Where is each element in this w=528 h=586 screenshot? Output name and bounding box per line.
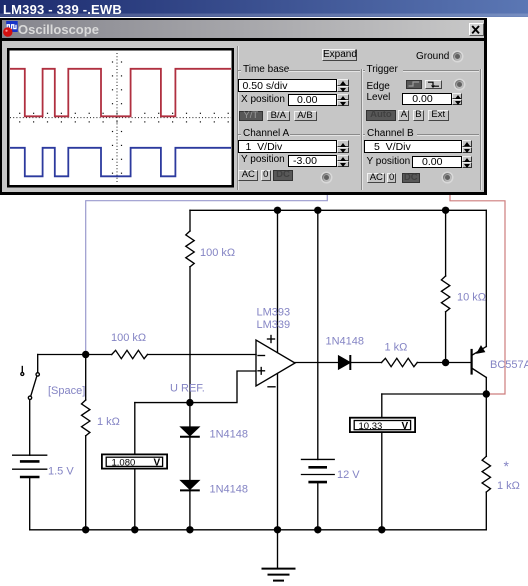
voltmeter 1.080 V: [102, 403, 167, 530]
wire: Channel A scope probe (blue) from scope to input node: [86, 194, 328, 353]
scope screen: [7, 48, 234, 188]
wire: Channel B scope probe (red) from scope to transistor collector node: [450, 194, 505, 394]
svg-text:BC557A: BC557A: [490, 359, 528, 371]
control panel: [237, 46, 238, 190]
svg-text:*: *: [504, 458, 510, 474]
switch [Space]: [21, 355, 86, 400]
transistor BC557A (PNP): [472, 346, 528, 394]
svg-text:V: V: [154, 458, 161, 469]
oscilloscope window: [0, 18, 487, 195]
wire: op-amp output: [295, 362, 339, 364]
svg-text:100 kΩ: 100 kΩ: [111, 332, 146, 344]
svg-text:LM339: LM339: [257, 319, 291, 331]
wire: op-amp V- power pin down to ground rail: [277, 374, 279, 530]
svg-text:[Space]: [Space]: [48, 385, 85, 397]
window border: [0, 18, 487, 20]
diode 1N4148 (lower clamp): [181, 437, 248, 530]
resistor 1 kOhm (series to base): [382, 342, 471, 367]
main application title bar: [0, 0, 528, 17]
svg-text:1N4148: 1N4148: [210, 429, 249, 441]
svg-text:1N4148: 1N4148: [326, 336, 365, 348]
resistor 10 kOhm (vertical, +V rail to transistor base node): [441, 210, 486, 362]
resistor 100 kOhm (horizontal, input): [86, 332, 148, 359]
Trigger group: [363, 70, 365, 71]
svg-text:1 kΩ: 1 kΩ: [385, 342, 408, 354]
Channel A group: [238, 134, 241, 135]
op-amp comparator U1 LM393/LM339: [256, 307, 295, 387]
wire: op-amp V+ power pin to top rail: [277, 210, 279, 352]
svg-text:10 kΩ: 10 kΩ: [457, 292, 486, 304]
svg-text:1 kΩ: 1 kΩ: [97, 416, 120, 428]
battery 1.5 V: [13, 400, 75, 530]
svg-text:100 kΩ: 100 kΩ: [200, 247, 235, 259]
wire: collector node horizontal (voltmeter tap): [382, 393, 487, 395]
Channel B group: [363, 134, 365, 135]
Time base group: [238, 70, 241, 71]
resistor 1 kOhm (collector load, vertical): [482, 394, 520, 530]
svg-text:1.5 V: 1.5 V: [48, 466, 74, 478]
wire: top rail down to transistor emitter: [485, 210, 487, 346]
svg-text:12 V: 12 V: [337, 469, 360, 481]
ground symbol: [263, 530, 295, 581]
svg-text:V: V: [402, 421, 409, 432]
diode 1N4148 (upper clamp): [181, 403, 248, 441]
svg-text:LM393: LM393: [257, 307, 291, 319]
svg-text:1 kΩ: 1 kΩ: [497, 480, 520, 492]
wire: +V top supply rail: [190, 209, 486, 211]
svg-text:1N4148: 1N4148: [210, 484, 249, 496]
resistor 1 kOhm (vertical, across battery/switch node): [82, 355, 120, 530]
voltmeter 10.33 V: [350, 394, 415, 530]
wire: inverting input line: [148, 354, 257, 356]
svg-text:1.080: 1.080: [112, 457, 136, 468]
battery 12 V: [302, 210, 361, 530]
resistor 100 kOhm (vertical, from +V rail to U REF node): [186, 210, 235, 402]
wire: U REF node to op-amp non-inverting input: [135, 371, 256, 403]
diode 1N4148 (series output): [326, 336, 382, 370]
svg-text:10.33: 10.33: [359, 421, 383, 432]
wire: ground/bottom rail: [30, 529, 487, 531]
svg-text:U REF.: U REF.: [170, 383, 205, 395]
